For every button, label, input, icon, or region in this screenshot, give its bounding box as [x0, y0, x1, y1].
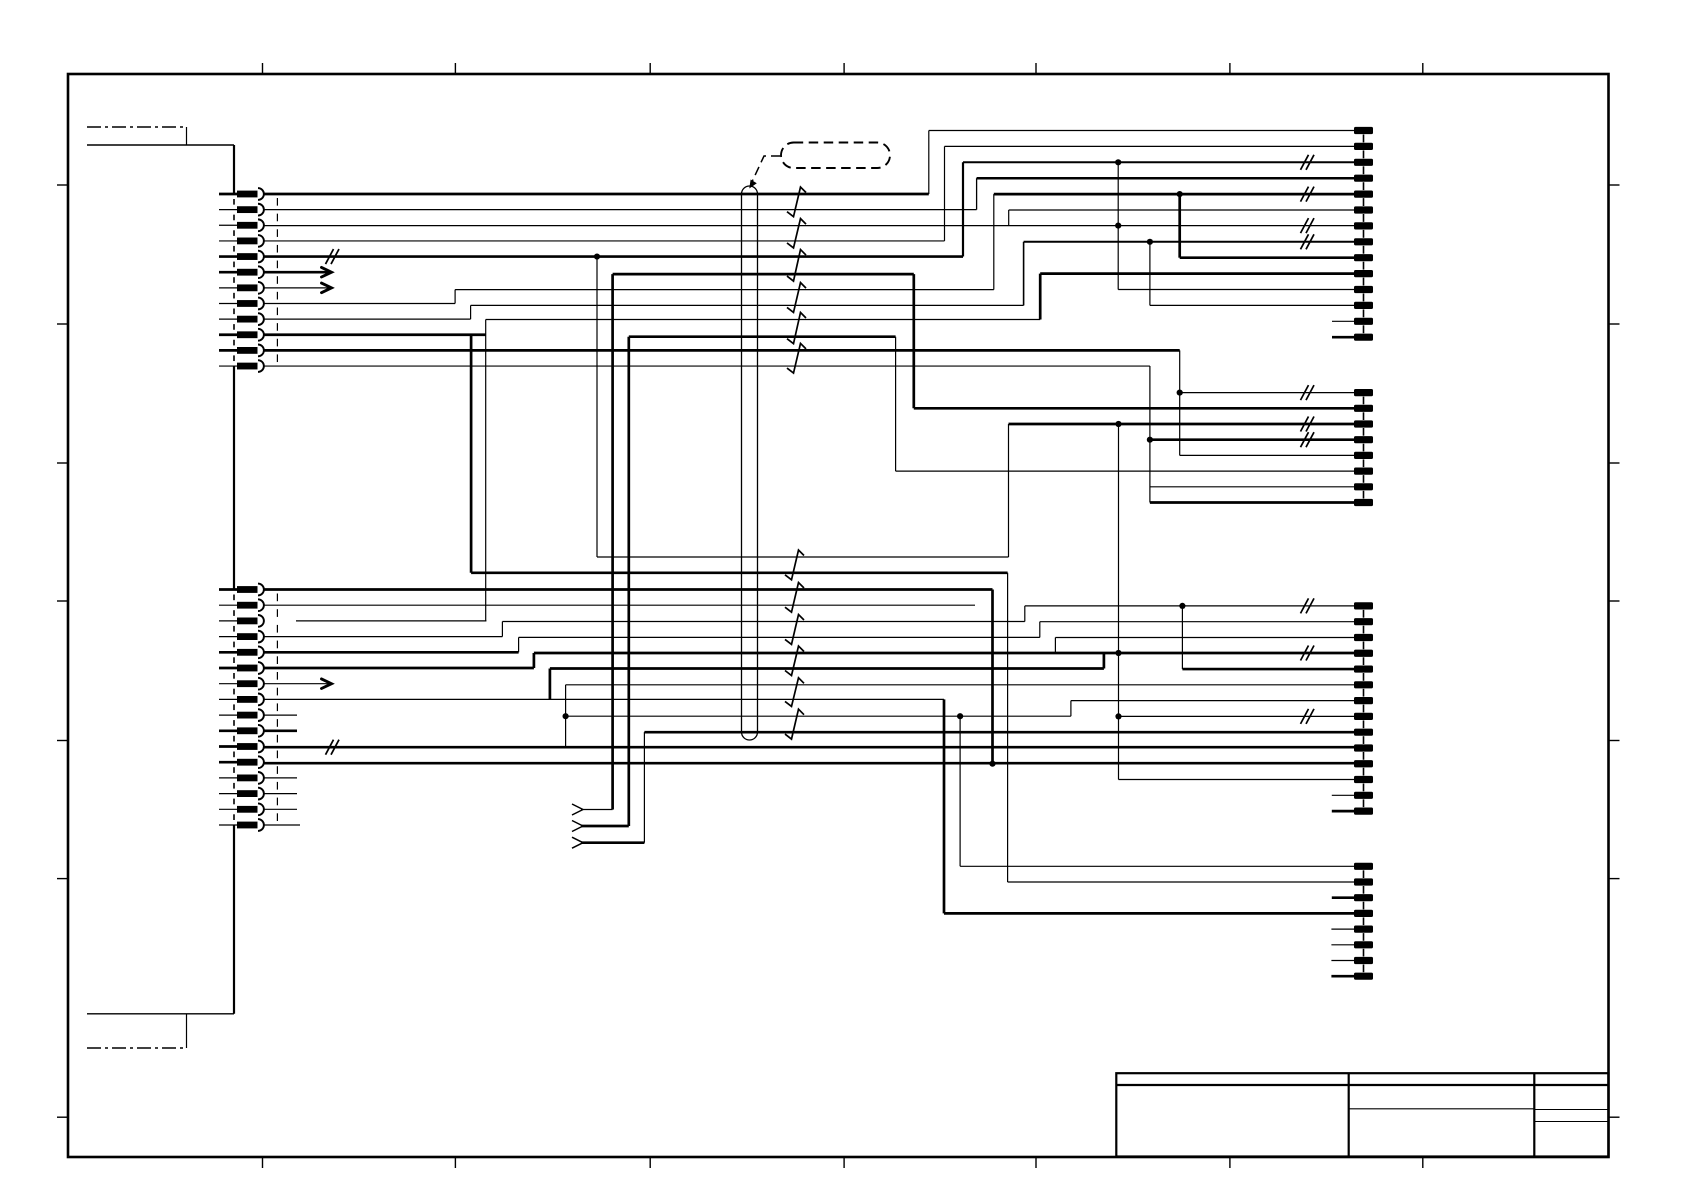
- bridge left leg 612: [611, 274, 614, 809]
- wire L7 stub with arrow: [265, 287, 331, 289]
- wire M16 stub: [265, 824, 301, 826]
- wire row 637: [519, 636, 1040, 638]
- border tick marks top/bottom: [263, 63, 1423, 1168]
- pin P3-3: [1354, 420, 1373, 427]
- riser to A2: [944, 146, 946, 241]
- junction C8: [1115, 713, 1121, 719]
- wire C7 row: [1071, 700, 1354, 702]
- wire B5 row: [1180, 454, 1354, 456]
- connector J1 top step vertical: [186, 127, 188, 145]
- wire L12 row: [265, 365, 1150, 367]
- twisted-pair mark T7: [785, 550, 804, 580]
- wire A5 row: [994, 193, 1354, 196]
- riser to C2: [1039, 622, 1041, 638]
- drop L11 to B: [1179, 350, 1181, 455]
- pin J1-15: [219, 620, 238, 622]
- pin J1-23: [219, 745, 238, 748]
- wire A2 row: [945, 145, 1355, 147]
- pin J1-20: [219, 698, 238, 700]
- connector J1 bottom dash-dot outline: [87, 1047, 187, 1049]
- junction on A7 row: [1115, 223, 1121, 229]
- pin J1-2: [219, 209, 238, 211]
- hash C8: [1301, 709, 1309, 724]
- wire M2 row: [265, 604, 976, 606]
- junction D1 drop: [957, 713, 963, 719]
- pin column dashed P2: [1363, 135, 1365, 334]
- wire A1 row: [929, 130, 1354, 132]
- twisted-pair mark T4: [787, 283, 806, 313]
- pin P3-8: [1354, 499, 1373, 506]
- twisted-pair mark T6: [787, 343, 806, 373]
- wire B4 row: [1150, 438, 1354, 441]
- wire A4 row: [977, 177, 1354, 180]
- wire M5 row: [265, 651, 519, 654]
- arrow stub row 843: [581, 841, 644, 844]
- wire C5 row: [1182, 668, 1354, 671]
- hash A5: [1301, 187, 1309, 202]
- hash A7: [1301, 218, 1309, 233]
- riser arrow3 to C9: [643, 732, 645, 843]
- mating dashed line (top group): [276, 198, 278, 362]
- wire M14 stub: [265, 793, 298, 795]
- drop B3 to C: [1118, 424, 1120, 780]
- step L9 up: [470, 305, 472, 319]
- riser to A8: [1023, 242, 1025, 306]
- wire D1 row: [960, 865, 1354, 867]
- junction L5 branch: [594, 253, 600, 259]
- drop M1 to C11: [991, 590, 994, 764]
- cable shield loop: [742, 186, 758, 740]
- pin P3-1: [1354, 389, 1373, 396]
- pin P2-6: [1354, 206, 1373, 213]
- wire M9 stub: [265, 714, 298, 716]
- pin J1-28: [219, 824, 238, 826]
- junction B4: [1147, 437, 1153, 443]
- riser to A6: [1008, 210, 1010, 226]
- wire C9 row: [644, 731, 1354, 734]
- wire A9 row: [1180, 256, 1354, 259]
- junction B1: [1177, 390, 1183, 396]
- pin P3-4: [1354, 436, 1373, 443]
- hash L5: [326, 249, 334, 264]
- pin P4-13: [1354, 792, 1373, 799]
- hash C1: [1301, 598, 1309, 613]
- wire M12/C11 row: [265, 762, 1355, 765]
- drop 573 to D2: [1007, 573, 1009, 882]
- wire C1 row: [1025, 605, 1354, 607]
- riser to A5: [993, 194, 995, 290]
- pin P2-2: [1354, 143, 1373, 150]
- pin J1-17: [219, 651, 238, 654]
- pin P2-9: [1354, 254, 1373, 261]
- pin J1-5: [219, 255, 238, 258]
- pin J1-22: [219, 729, 238, 732]
- twisted-pair mark T11: [785, 678, 804, 707]
- wire M4 row: [265, 636, 503, 638]
- junction row 716: [563, 713, 569, 719]
- wire M15 stub: [265, 808, 298, 810]
- pin P3-2: [1354, 405, 1373, 412]
- twisted-pair mark T9: [785, 615, 804, 645]
- pin P2-7: [1354, 222, 1373, 229]
- wire M1 row: [265, 588, 993, 591]
- wire M11/C10 row: [265, 746, 1355, 749]
- pin P2-11: [1354, 286, 1373, 293]
- arrow stub row 809: [581, 809, 613, 811]
- stub D7: [1331, 960, 1354, 962]
- pin J1-3: [219, 224, 238, 226]
- pin P2-10: [1354, 270, 1373, 277]
- hash A8: [1301, 234, 1309, 249]
- step M5 up: [518, 637, 520, 652]
- drop L12 to B: [1149, 366, 1151, 502]
- hash M11: [326, 740, 334, 755]
- junction A3 branch: [1115, 159, 1121, 165]
- twisted-pair mark T1: [787, 187, 806, 217]
- pin P5-7: [1354, 957, 1373, 964]
- border tick marks left/right: [57, 185, 1620, 1117]
- wire C3 row: [1055, 636, 1354, 638]
- riser to A4: [976, 178, 978, 209]
- arrow stub row 826: [581, 825, 629, 828]
- wire L9 row: [265, 318, 471, 320]
- junction A5 branch: [1177, 191, 1183, 197]
- wire D4 row: [944, 912, 1354, 915]
- stub C13: [1332, 794, 1354, 796]
- title block middle row line: [1349, 1108, 1535, 1110]
- connector J1 bottom edge: [87, 1013, 234, 1015]
- wire M6/C4 row: [534, 652, 1354, 655]
- wire B1 row: [1180, 392, 1354, 394]
- pin column dashed P5: [1363, 870, 1365, 972]
- title block divider 1: [1348, 1073, 1350, 1156]
- wire M10 stub: [265, 729, 298, 732]
- riser 1104: [1103, 653, 1106, 669]
- stub D6: [1331, 944, 1354, 946]
- stub D5: [1331, 928, 1354, 930]
- wire M3 row: [296, 620, 486, 622]
- connector J1 right edge lower solid: [233, 825, 235, 1014]
- pin J1-7: [219, 287, 238, 289]
- wire row 573: [471, 571, 1008, 574]
- wire A3 row: [963, 161, 1354, 163]
- drop A5 to A9: [1178, 194, 1181, 258]
- wire C12 row: [1119, 779, 1355, 781]
- wire C2 row: [1040, 621, 1354, 623]
- pin P4-4: [1354, 650, 1373, 657]
- pin J1-13: [219, 588, 238, 591]
- twisted-pair mark T5: [787, 313, 806, 344]
- drop A8 to A12: [1149, 242, 1151, 306]
- wire A12 row: [1150, 304, 1354, 306]
- pin P2-13: [1354, 318, 1373, 325]
- junction C1 branch: [1179, 603, 1185, 609]
- bridge right leg 914: [912, 274, 915, 408]
- title block header line: [1116, 1084, 1608, 1086]
- pin P4-12: [1354, 776, 1373, 783]
- riser to A10: [1039, 274, 1042, 320]
- step to C7: [1070, 701, 1072, 717]
- pin J1-11: [219, 349, 238, 352]
- wire L8 row: [265, 302, 456, 304]
- riser to A3: [962, 162, 964, 256]
- pin P2-4: [1354, 175, 1373, 182]
- wire mid row 320: [486, 319, 1040, 321]
- riser to C3: [1054, 637, 1056, 653]
- pin P4-5: [1354, 665, 1373, 672]
- step L8 up: [454, 290, 456, 304]
- wire row 557: [597, 556, 1009, 558]
- wire A8 row: [1024, 241, 1354, 243]
- pin J1-12: [219, 365, 238, 367]
- wire L3/A7 row: [265, 225, 1355, 227]
- pin P5-6: [1354, 941, 1373, 948]
- hash C4: [1301, 646, 1309, 661]
- hash A3: [1301, 155, 1309, 170]
- pin P4-2: [1354, 618, 1373, 625]
- pin P4-1: [1354, 602, 1373, 609]
- wire B7 row: [1150, 486, 1354, 488]
- pin P2-1: [1354, 127, 1373, 134]
- drop A3 to A11: [1117, 162, 1119, 289]
- wire L4 row: [265, 240, 945, 242]
- wire mid row 305: [471, 304, 1024, 306]
- stub A14: [1332, 336, 1354, 339]
- twisted-pair mark T8: [785, 583, 804, 613]
- pin column dashed P3: [1363, 397, 1365, 499]
- pin P2-5: [1354, 191, 1373, 198]
- wire M8 row: [265, 698, 945, 700]
- twisted-pair mark T10: [785, 646, 804, 676]
- mating dashed line (bottom group): [276, 594, 278, 822]
- wire L5 row: [265, 255, 964, 258]
- drop to D1: [959, 716, 961, 866]
- vertical 486: [485, 320, 487, 621]
- hash B4: [1301, 432, 1309, 447]
- pin P3-7: [1354, 483, 1373, 490]
- pin P4-11: [1354, 760, 1373, 767]
- junction drop at 471: [470, 335, 473, 573]
- junction C11: [989, 761, 995, 767]
- vertical 566: [565, 685, 567, 748]
- branch L5 drop: [596, 257, 598, 557]
- pin P2-12: [1354, 302, 1373, 309]
- pin J1-19: [219, 683, 238, 685]
- connector J1 right edge mid solid: [233, 366, 235, 589]
- connector J1 bottom step vertical: [186, 1014, 188, 1048]
- wire B3 row: [1009, 423, 1355, 426]
- riser to A1: [928, 131, 930, 195]
- pin J1-16: [219, 636, 238, 638]
- pin P4-8: [1354, 713, 1373, 720]
- wire L10 row: [265, 333, 486, 336]
- wire L1 row: [265, 193, 929, 196]
- wire row 621: [502, 621, 1024, 623]
- bridge row 274: [613, 273, 914, 276]
- connector J1 pin column dashed (top group): [233, 199, 235, 361]
- step M8 up: [549, 669, 552, 700]
- hash B1: [1301, 385, 1309, 400]
- pin P3-5: [1354, 452, 1373, 459]
- wire L6 stub with arrow: [265, 271, 331, 274]
- pin P4-3: [1354, 634, 1373, 641]
- riser to C1: [1024, 606, 1026, 622]
- pin P5-1: [1354, 863, 1373, 870]
- wire B6 row: [896, 470, 1354, 472]
- wire B2 row: [914, 407, 1354, 410]
- balloon leader line: [751, 156, 780, 184]
- bridge row 337: [629, 335, 896, 338]
- pin P2-14: [1354, 334, 1373, 341]
- title block divider 2: [1533, 1073, 1535, 1156]
- stub C14: [1332, 810, 1354, 813]
- bridge right leg 896: [895, 337, 897, 471]
- pin J1-9: [219, 318, 238, 320]
- wire D2 row: [1008, 881, 1354, 883]
- wire L11 row: [265, 349, 1180, 352]
- pin J1-1: [219, 193, 238, 196]
- pin P5-8: [1354, 973, 1373, 980]
- pin J1-24: [219, 761, 238, 764]
- pin column dashed P4: [1363, 610, 1365, 807]
- stub A13: [1332, 320, 1354, 322]
- step M6 up: [533, 653, 536, 668]
- pin J1-21: [219, 714, 238, 716]
- pin P2-3: [1354, 159, 1373, 166]
- wire row 716: [566, 715, 1071, 717]
- junction A8 branch: [1147, 239, 1153, 245]
- title block right row line 1: [1534, 1109, 1608, 1111]
- wire C6 row: [566, 684, 1354, 686]
- wire mid row 289: [455, 289, 994, 291]
- junction C4: [1115, 650, 1121, 656]
- pin P4-14: [1354, 808, 1373, 815]
- connector J1 top edge: [87, 144, 234, 146]
- pin J1-26: [219, 793, 238, 795]
- pin P4-7: [1354, 697, 1373, 704]
- connector J1 right edge upper solid: [233, 145, 235, 194]
- drop C1 to C5: [1181, 606, 1183, 669]
- pin P5-2: [1354, 878, 1373, 885]
- wire M7 stub with arrow: [265, 683, 331, 685]
- pin J1-6: [219, 271, 238, 274]
- wire M13 stub: [265, 777, 298, 779]
- pin J1-27: [219, 808, 238, 810]
- bridge left leg 629: [627, 337, 630, 826]
- wire B8 row: [1150, 501, 1354, 504]
- wire L2 row: [265, 209, 977, 211]
- stub D3: [1332, 896, 1354, 899]
- pin J1-8: [219, 302, 238, 304]
- pin P4-10: [1354, 744, 1373, 751]
- step M4 up: [501, 622, 503, 637]
- twisted-pair mark T3: [787, 250, 806, 282]
- connector J1 top dash-dot outline: [87, 126, 187, 128]
- pin P4-9: [1354, 729, 1373, 736]
- pin P5-3: [1354, 894, 1373, 901]
- pin P2-8: [1354, 238, 1373, 245]
- wire A10 row: [1040, 272, 1354, 275]
- riser to B3: [1008, 424, 1010, 557]
- pin P3-6: [1354, 468, 1373, 475]
- wire A11 row: [1118, 289, 1354, 291]
- shield note balloon (dashed stadium): [781, 143, 890, 169]
- hash B3: [1301, 417, 1309, 432]
- stub D8: [1331, 975, 1354, 978]
- pin J1-18: [219, 667, 238, 670]
- pin J1-25: [219, 777, 238, 779]
- pin P5-5: [1354, 926, 1373, 933]
- wire M6 row: [265, 667, 534, 670]
- wire A6 row: [1009, 209, 1354, 211]
- wire C8 row: [1119, 715, 1355, 717]
- junction B3 branch: [1115, 421, 1121, 427]
- pin J1-10: [219, 333, 238, 336]
- drop M8 to D4: [943, 699, 946, 913]
- pin P5-4: [1354, 910, 1373, 917]
- twisted-pair mark T2: [787, 219, 806, 248]
- pin J1-14: [219, 604, 238, 606]
- title block outline: [1116, 1073, 1608, 1156]
- pin J1-4: [219, 240, 238, 242]
- pin P4-6: [1354, 681, 1373, 688]
- wire row 668: [550, 667, 1104, 670]
- twisted-pair mark T12: [785, 709, 804, 739]
- title block right row line 2: [1534, 1121, 1608, 1123]
